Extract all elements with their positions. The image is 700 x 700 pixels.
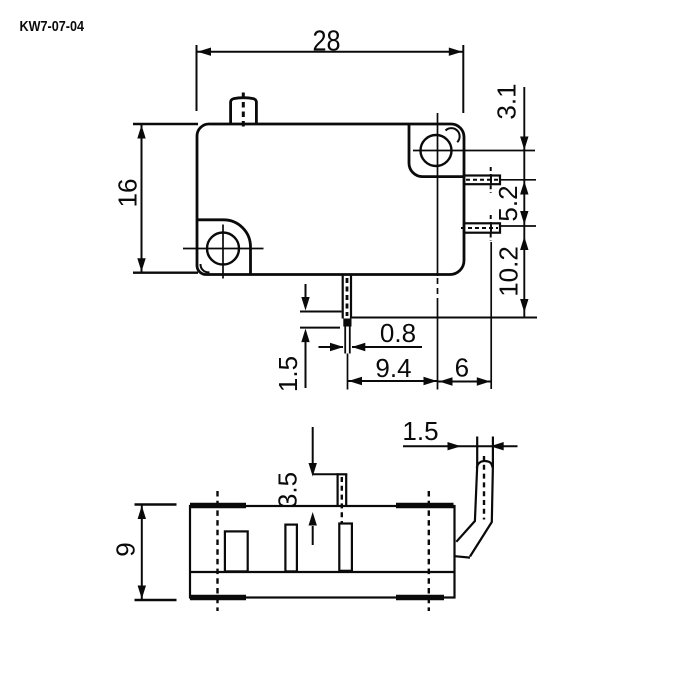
dimension 6 arrows <box>439 377 453 385</box>
bottom-left mounting boss <box>197 220 251 274</box>
dimension 0.8 arrows <box>330 343 344 351</box>
svg-text:3.5: 3.5 <box>273 472 303 508</box>
dimension 9.4 line <box>348 380 439 382</box>
bottom view dashed centerline right <box>428 491 430 611</box>
top-right corner inner arc <box>446 128 460 142</box>
dimension 6 line <box>438 381 491 383</box>
svg-text:1.5: 1.5 <box>402 416 438 446</box>
terminal 2 hole dashed line <box>490 224 492 231</box>
right terminal 1 <box>464 176 500 185</box>
svg-text:KW7-07-04: KW7-07-04 <box>20 18 85 35</box>
bottom-left hole horizontal centerline <box>183 248 264 250</box>
bottom view body outline <box>190 506 455 598</box>
right terminal 2 <box>464 223 500 232</box>
bottom view terminal slot 3 <box>339 524 352 571</box>
dimension 1.5 (bottom view) arrows <box>448 442 462 450</box>
bottom view thick bottom edges <box>190 595 246 601</box>
top view body outline <box>197 124 464 275</box>
bottom view terminal slot 2 <box>285 525 297 572</box>
bent terminal right side <box>470 437 493 557</box>
bottom view protruding terminal dashed centerline <box>341 477 343 523</box>
terminal 1 hole dashed line <box>490 177 492 184</box>
bottom terminal extension line <box>347 354 349 390</box>
svg-text:16: 16 <box>113 179 143 208</box>
dimension 9.4 arrows <box>349 377 363 385</box>
bottom view thick top edges <box>190 503 246 509</box>
bent terminal (bottom view) left side <box>456 437 477 542</box>
svg-text:5.2: 5.2 <box>493 185 523 221</box>
dimension 10.2 arrows <box>520 237 528 251</box>
top-right hole vertical centerline / extension line <box>437 113 439 276</box>
bent terminal dashed centerline <box>483 456 485 520</box>
dimension 0.8 lines <box>319 346 344 348</box>
top-right mounting hole <box>421 135 452 166</box>
bottom-left mounting hole <box>207 233 239 265</box>
lower reference line <box>352 317 537 319</box>
bent terminal top cap <box>477 461 493 468</box>
terminal 1 dashed centerline <box>466 179 498 181</box>
dimension 3.5 arrows <box>312 427 314 463</box>
terminal 1 reference line <box>500 179 536 181</box>
dimension 5.2 arrows <box>520 181 528 195</box>
dimension 6 right extension line <box>490 242 492 389</box>
bottom view protruding terminal <box>337 474 339 505</box>
dimension 1.5 arrows (top view) <box>305 284 307 298</box>
svg-text:1.5: 1.5 <box>273 356 303 392</box>
svg-text:0.8: 0.8 <box>380 318 416 348</box>
svg-text:6: 6 <box>455 353 469 383</box>
plunger button <box>231 98 257 124</box>
bottom view mid line <box>190 571 455 573</box>
top-right mounting boss <box>409 124 464 177</box>
svg-text:3.1: 3.1 <box>492 83 522 119</box>
bottom terminal dashed centerline <box>346 278 349 316</box>
dimension 16 arrows <box>137 125 145 139</box>
plunger dashed centerline <box>242 93 245 130</box>
dimension 9 ticks <box>135 503 177 505</box>
dimension 3.5 tick <box>313 473 338 475</box>
dimension 16 line <box>141 124 143 273</box>
bottom view terminal slot 1 <box>225 531 248 571</box>
dimension 9 arrows <box>138 506 146 520</box>
terminal 2 reference line <box>500 225 536 227</box>
bottom terminal dark section <box>343 319 351 327</box>
dimension 1.5 (bottom view) line <box>403 445 518 447</box>
dimension 9 line <box>141 505 143 601</box>
bent terminal bottom edge <box>455 556 470 557</box>
svg-text:9.4: 9.4 <box>375 353 411 383</box>
dimension 28 arrows <box>198 48 212 56</box>
bottom-left hole vertical centerline <box>222 225 224 279</box>
svg-text:9: 9 <box>111 542 141 556</box>
bottom view dashed centerline left <box>216 491 218 611</box>
svg-text:10.2: 10.2 <box>494 246 524 297</box>
bottom-left corner inner arc <box>200 264 209 272</box>
right dimension column line <box>523 87 525 318</box>
bottom terminal wide part <box>342 275 344 319</box>
dimension 28 extension lines <box>196 45 198 111</box>
svg-text:28: 28 <box>313 26 341 58</box>
dimension 1.5 ticks (top view) <box>300 311 342 313</box>
terminal 2 dashed centerline <box>461 227 498 229</box>
top-right hole horizontal centerline <box>413 150 535 152</box>
dimension 16 ticks <box>133 123 198 125</box>
dimension 28 line <box>197 51 464 53</box>
bottom terminal narrow tip <box>344 327 346 354</box>
dimension 3.1 arrow <box>520 137 528 151</box>
